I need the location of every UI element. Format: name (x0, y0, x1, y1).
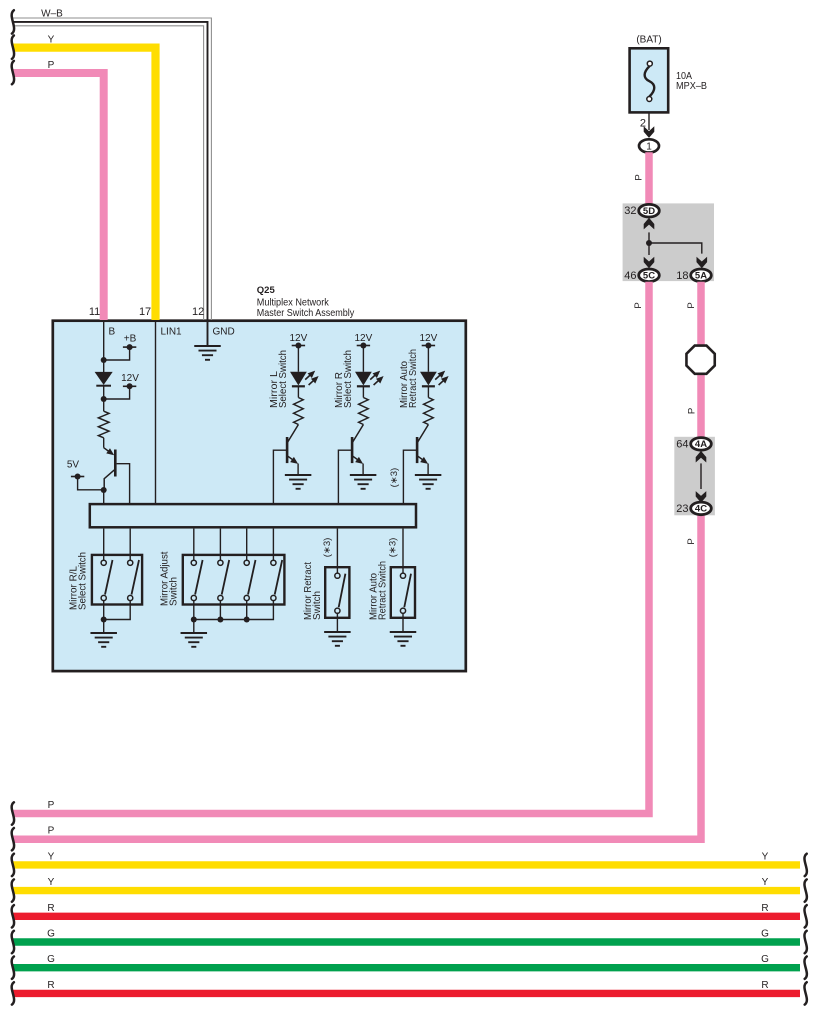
svg-text:P: P (48, 60, 55, 71)
svg-text:G: G (47, 954, 55, 965)
svg-text:Q25: Q25 (257, 285, 276, 296)
svg-text:Master Switch Assembly: Master Switch Assembly (257, 308, 355, 319)
svg-text:P: P (48, 800, 55, 811)
svg-text:GND: GND (213, 327, 235, 338)
svg-text:P: P (686, 538, 697, 544)
svg-text:(∗3): (∗3) (389, 468, 400, 488)
svg-text:Y: Y (48, 877, 55, 888)
svg-text:R: R (761, 980, 768, 991)
svg-text:P: P (687, 408, 698, 414)
svg-text:P: P (48, 826, 55, 837)
svg-text:1: 1 (646, 141, 652, 152)
svg-text:Retract Switch: Retract Switch (408, 349, 419, 408)
svg-text:R: R (47, 903, 54, 914)
svg-text:64: 64 (676, 438, 688, 450)
svg-text:5V: 5V (67, 460, 80, 471)
svg-text:W–B: W–B (41, 9, 63, 20)
svg-text:4A: 4A (695, 439, 707, 450)
svg-text:Select Switch: Select Switch (78, 552, 89, 610)
svg-text:Switch: Switch (312, 591, 323, 620)
svg-text:(∗3): (∗3) (322, 538, 333, 558)
svg-text:12: 12 (192, 306, 204, 318)
svg-text:12V: 12V (355, 333, 373, 344)
svg-text:G: G (47, 929, 55, 940)
svg-text:P: P (686, 302, 697, 308)
svg-text:11: 11 (89, 306, 100, 318)
svg-text:17: 17 (139, 306, 151, 318)
svg-text:18: 18 (676, 270, 688, 282)
svg-text:5D: 5D (643, 206, 655, 217)
svg-text:23: 23 (676, 503, 688, 515)
svg-text:Y: Y (762, 851, 769, 862)
svg-text:12V: 12V (121, 373, 139, 384)
svg-text:5C: 5C (643, 271, 655, 282)
svg-text:+B: +B (124, 334, 137, 345)
svg-text:12V: 12V (290, 333, 308, 344)
svg-text:G: G (761, 954, 769, 965)
svg-text:4C: 4C (695, 504, 707, 515)
svg-text:R: R (47, 980, 54, 991)
svg-text:12V: 12V (420, 333, 438, 344)
svg-text:MPX–B: MPX–B (676, 81, 707, 92)
svg-text:R: R (761, 903, 768, 914)
svg-text:(BAT): (BAT) (636, 35, 661, 46)
svg-text:Select Switch: Select Switch (343, 350, 354, 408)
svg-text:Y: Y (48, 35, 55, 46)
svg-text:LIN1: LIN1 (161, 327, 183, 338)
svg-text:5A: 5A (695, 271, 707, 282)
svg-text:B: B (109, 327, 116, 338)
svg-text:Multiplex Network: Multiplex Network (257, 297, 330, 308)
svg-text:(∗3): (∗3) (388, 538, 399, 558)
svg-text:G: G (761, 929, 769, 940)
svg-text:Switch: Switch (169, 577, 180, 606)
svg-text:P: P (634, 174, 645, 180)
svg-text:Y: Y (762, 877, 769, 888)
svg-text:Retract Switch: Retract Switch (378, 561, 389, 620)
svg-text:Select Switch: Select Switch (278, 350, 289, 408)
svg-text:32: 32 (624, 205, 636, 217)
svg-text:P: P (633, 302, 644, 308)
svg-text:46: 46 (624, 270, 636, 282)
svg-text:Y: Y (48, 851, 55, 862)
